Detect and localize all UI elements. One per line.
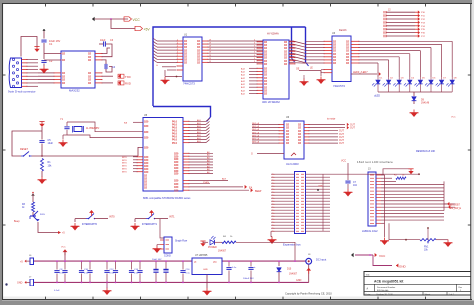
svg-text:74HC573: 74HC573: [333, 84, 345, 88]
label J5: [164, 240, 187, 258]
capacitor C12: [104, 260, 114, 283]
ground: [71, 219, 80, 231]
svg-text:SEG_A: SEG_A: [252, 128, 260, 131]
svg-text:October 26, 2010: October 26, 2010: [376, 293, 394, 296]
label U6: [286, 116, 299, 166]
wire: [381, 175, 455, 223]
svg-text:VO: VO: [213, 261, 217, 264]
capacitor C14: [129, 260, 139, 283]
mcu U5 STC89C52: [137, 117, 190, 192]
svg-text:1D0: 1D0: [144, 125, 149, 128]
connector J7 GND: [17, 276, 34, 285]
svg-text:10uF 16V: 10uF 16V: [152, 259, 162, 261]
svg-text:3: 3: [254, 43, 255, 45]
svg-text:LED0_/LED7: LED0_/LED7: [353, 71, 368, 74]
svg-text:INTERRUPT0: INTERRUPT0: [82, 223, 98, 226]
wire: [122, 157, 137, 174]
svg-text:SEG_A: SEG_A: [252, 122, 260, 125]
ground: [103, 282, 112, 295]
svg-text:1D: 1D: [88, 82, 91, 85]
ground: [59, 140, 68, 148]
connector J2 header: [384, 9, 426, 39]
ground: [268, 237, 277, 245]
wire jogs: [289, 41, 324, 63]
capacitor C2: [41, 49, 52, 66]
svg-text:VI: VI: [194, 261, 197, 264]
svg-text:HY-6264A: HY-6264A: [267, 32, 279, 36]
diode D9 1N4148: [412, 97, 430, 105]
wire: [38, 73, 54, 83]
label J1: [8, 90, 36, 94]
svg-text:INT0: INT0: [122, 166, 128, 168]
svg-text:1D0: 1D0: [144, 131, 149, 134]
svg-text:INT0: INT0: [122, 160, 128, 162]
svg-text:VCC: VCC: [341, 160, 346, 163]
svg-text:2: 2: [177, 43, 178, 45]
svg-text:OUT: OUT: [339, 131, 344, 133]
svg-text:1D: 1D: [346, 62, 349, 65]
svg-text:Px: Px: [272, 219, 274, 221]
wire: [189, 188, 262, 193]
svg-text:OUT: OUT: [350, 128, 355, 130]
switch RESET: [20, 148, 32, 157]
LED D12: [203, 236, 217, 249]
switch INT0: [75, 210, 115, 226]
svg-text:8051kit.ddb: 8051kit.ddb: [377, 289, 389, 292]
svg-text:1D0: 1D0: [144, 121, 149, 124]
svg-text:3: 3: [254, 52, 255, 54]
svg-text:1D: 1D: [264, 93, 267, 96]
wire: [189, 119, 210, 144]
svg-text:19: 19: [209, 43, 211, 45]
svg-text:U7 LM7805: U7 LM7805: [195, 254, 208, 257]
capacitor C16: [226, 260, 237, 283]
label J4: [283, 186, 323, 247]
svg-text:10uF: 10uF: [48, 142, 54, 145]
connector J1 DB9: [9, 58, 38, 88]
svg-text:2: 2: [177, 49, 178, 51]
svg-text:VCC: VCC: [133, 18, 141, 22]
power arrow: [408, 169, 420, 175]
label U1: [183, 34, 195, 86]
ground: [161, 77, 170, 85]
svg-text:OUT: OUT: [339, 137, 344, 139]
svg-text:32K x8 SRAM: 32K x8 SRAM: [262, 100, 280, 104]
ground: [300, 75, 309, 86]
svg-text:RESPACK-8 10K: RESPACK-8 10K: [416, 150, 435, 153]
wire: [63, 135, 67, 139]
ground: [380, 238, 389, 246]
wire: [160, 219, 164, 238]
svg-text:Px: Px: [272, 213, 274, 215]
svg-text:Px: Px: [272, 189, 274, 191]
svg-text:2: 2: [177, 61, 178, 63]
svg-text:100uF 16V: 100uF 16V: [243, 278, 254, 280]
connector J3 LCD: [368, 172, 381, 226]
label LCD section: [357, 160, 393, 164]
ground: [317, 77, 326, 85]
svg-text:BEEP: BEEP: [255, 190, 262, 193]
resistor R2: [394, 175, 406, 180]
svg-text:Da103: Da103: [339, 29, 347, 32]
svg-text:GND: GND: [399, 265, 407, 269]
wire: [306, 174, 331, 231]
svg-text:1D: 1D: [264, 63, 267, 66]
svg-text:19: 19: [209, 55, 211, 57]
svg-text:19: 19: [209, 46, 211, 48]
svg-text:CON3: CON3: [164, 255, 171, 258]
svg-text:1D0: 1D0: [174, 173, 179, 176]
svg-text:2: 2: [177, 46, 178, 48]
svg-text:Px: Px: [272, 198, 274, 200]
svg-text:GND: GND: [203, 269, 208, 271]
wire: [21, 37, 37, 57]
U3 74HC573: [324, 36, 360, 82]
svg-text:1D: 1D: [333, 62, 336, 65]
svg-text:INT1: INT1: [169, 215, 175, 219]
svg-text:74HC573: 74HC573: [183, 82, 195, 86]
power arrow VCC tap: [63, 249, 68, 262]
svg-text:INT0: INT0: [122, 172, 128, 174]
svg-text:1D: 1D: [62, 82, 65, 85]
op-amp U2 MAX232: [54, 51, 103, 88]
svg-text:PSEN: PSEN: [203, 182, 209, 184]
connector J4 expansion: [295, 172, 306, 234]
capacitor C13: [113, 260, 118, 283]
capacitor C10: [79, 260, 89, 283]
svg-text:3: 3: [254, 58, 255, 60]
svg-text:TXD: TXD: [125, 75, 131, 79]
svg-text:2: 2: [177, 40, 178, 42]
port RXD: [118, 81, 131, 86]
svg-text:INT0: INT0: [122, 157, 128, 159]
svg-text:POWER: POWER: [208, 247, 217, 249]
svg-text:OUT: OUT: [339, 134, 344, 136]
ground: [131, 219, 140, 231]
capacitor C9: [62, 260, 67, 283]
svg-text:1D: 1D: [62, 53, 65, 56]
wire LE label: [351, 71, 381, 76]
ground: [444, 240, 453, 248]
svg-text:1D: 1D: [88, 59, 91, 62]
capacitor C15: [137, 260, 142, 283]
svg-text:1D: 1D: [298, 142, 301, 145]
title block: [364, 272, 471, 296]
svg-text:ALE: ALE: [222, 178, 227, 181]
label: [327, 118, 336, 121]
label U3: [332, 29, 347, 88]
wire: [206, 275, 208, 289]
svg-text:Px: Px: [272, 222, 274, 224]
svg-text:19: 19: [209, 58, 211, 60]
wire: [443, 181, 445, 210]
svg-text:INT0: INT0: [122, 169, 128, 171]
label U2: [69, 89, 80, 93]
svg-text:VCC: VCC: [451, 117, 456, 119]
svg-text:9-pin D-sub connector: 9-pin D-sub connector: [8, 90, 36, 94]
svg-text:MAX232: MAX232: [69, 89, 80, 93]
svg-text:OUT: OUT: [339, 140, 344, 142]
resistor R4: [215, 236, 237, 244]
svg-text:3: 3: [254, 55, 255, 57]
capacitor C3: [99, 39, 114, 57]
svg-text:OUT: OUT: [339, 143, 344, 145]
ground: [410, 110, 419, 118]
svg-text:3: 3: [254, 46, 255, 48]
svg-text:OE: OE: [296, 69, 300, 71]
svg-text:1D: 1D: [197, 61, 200, 64]
svg-text:INT0: INT0: [109, 215, 115, 219]
switch INT1: [135, 210, 175, 226]
wire: [236, 242, 296, 262]
wire: [189, 185, 253, 190]
svg-text:Px: Px: [272, 231, 274, 233]
crystal Y1: [60, 118, 100, 133]
bus P0/data: [153, 27, 306, 122]
svg-text:2: 2: [177, 55, 178, 57]
regulator U7 7805: [192, 251, 227, 275]
label: [54, 247, 66, 293]
svg-text:INT0: INT0: [122, 163, 128, 165]
bus riser: [292, 27, 295, 62]
svg-text:Px: Px: [272, 174, 274, 176]
svg-text:19: 19: [209, 52, 211, 54]
svg-text:3: 3: [254, 49, 255, 51]
svg-text:Px: Px: [272, 183, 274, 185]
svg-text:3: 3: [254, 61, 255, 63]
power port GND: [373, 255, 407, 269]
wire: [208, 40, 263, 63]
svg-text:SEG_A: SEG_A: [252, 134, 260, 137]
ground: [40, 66, 49, 74]
wire: [271, 174, 295, 233]
svg-text:G: G: [251, 154, 253, 156]
wire: [251, 153, 296, 156]
svg-text:Px: Px: [272, 210, 274, 212]
svg-text:RV1: RV1: [424, 247, 429, 249]
capacitor C5: [39, 139, 53, 145]
capacitor CE2: [163, 260, 168, 283]
svg-text:LE: LE: [310, 68, 313, 70]
resistor R1: [41, 159, 53, 172]
capacitor C7: [341, 160, 358, 190]
wire: [296, 264, 311, 282]
svg-text:D10: D10: [287, 269, 292, 271]
svg-text:ULN 2003: ULN 2003: [286, 162, 299, 166]
svg-text:DC Input: DC Input: [316, 258, 327, 262]
svg-text:9015: 9015: [40, 214, 46, 216]
port TXD: [118, 74, 131, 79]
wire: [296, 68, 324, 77]
wire: [38, 222, 65, 235]
svg-text:Px: Px: [272, 192, 274, 194]
svg-text:8051 compatible STC89C52 RC/RD: 8051 compatible STC89C52 RC/RD series: [143, 197, 191, 200]
wire: [252, 122, 279, 144]
svg-text:Sheet: Sheet: [425, 293, 431, 296]
diode D10 1N4007: [277, 260, 298, 283]
wire: [374, 92, 452, 98]
svg-text:Px: Px: [272, 180, 274, 182]
svg-text:VCC: VCC: [61, 247, 66, 249]
power port VCC: [351, 253, 386, 258]
wire: [309, 123, 355, 145]
svg-text:1D: 1D: [286, 142, 289, 145]
svg-text:Px: Px: [272, 186, 274, 188]
capacitor C4: [102, 60, 116, 72]
wire: [44, 54, 61, 61]
ground: [38, 177, 47, 185]
svg-text:19: 19: [209, 40, 211, 42]
port LCD2: [448, 205, 462, 210]
svg-text:0.1uF: 0.1uF: [54, 290, 60, 292]
svg-text:1D: 1D: [144, 187, 147, 190]
svg-text:1D: 1D: [284, 63, 287, 66]
LEDs D1-D8: [372, 77, 457, 92]
svg-text:19: 19: [209, 61, 211, 63]
svg-text:RS_RW_E: RS_RW_E: [450, 208, 462, 210]
svg-text:1D0: 1D0: [144, 147, 149, 150]
svg-text:Px: Px: [272, 216, 274, 218]
svg-text:1N4007: 1N4007: [289, 274, 298, 276]
power port VCC top-left: [92, 17, 140, 22]
svg-text:Single Row: Single Row: [175, 240, 187, 243]
svg-text:Date:: Date:: [366, 293, 372, 296]
svg-text:SEG_A: SEG_A: [252, 141, 260, 144]
wire: [32, 147, 144, 157]
wire: [102, 75, 113, 77]
resistor R3: [22, 197, 35, 212]
wire: [271, 231, 272, 236]
ground: [203, 288, 212, 296]
svg-text:Px: Px: [272, 177, 274, 179]
svg-text:+5V: +5V: [144, 28, 151, 32]
wire: [189, 178, 228, 181]
wire: [385, 175, 421, 241]
svg-text:1D0: 1D0: [144, 171, 149, 174]
svg-text:GND: GND: [17, 282, 23, 285]
label RP1: [416, 117, 456, 153]
svg-text:RESET: RESET: [20, 148, 29, 151]
port LCD: [444, 202, 461, 207]
power port +5V top-left: [135, 26, 150, 31]
wire: [67, 122, 143, 138]
wire: [111, 19, 135, 29]
bus riser 2: [306, 27, 309, 66]
wire: [383, 169, 411, 175]
wire: [102, 82, 113, 84]
ground: [344, 189, 353, 197]
wire power rail bottom: [34, 281, 309, 283]
svg-text:SEG_A: SEG_A: [252, 125, 260, 128]
svg-text:GND: GND: [318, 186, 323, 188]
wire: [189, 151, 213, 174]
wire power rail top: [34, 260, 306, 262]
port BEEP: [31, 192, 35, 197]
connector J6 +5V: [20, 255, 34, 264]
svg-text:2: 2: [177, 58, 178, 60]
svg-text:1D0: 1D0: [174, 189, 179, 192]
connector J5: [160, 237, 172, 253]
svg-text:ACE mega8051 kit: ACE mega8051 kit: [374, 280, 404, 284]
svg-text:1N4007: 1N4007: [218, 251, 227, 253]
svg-text:Px: Px: [272, 204, 274, 206]
wire: [124, 121, 143, 124]
svg-text:Document Number: Document Number: [377, 286, 396, 289]
svg-text:Copyright by Pantin Renzhong C: Copyright by Pantin Renzhong CE, 2010: [285, 292, 332, 296]
svg-text:RXD: RXD: [125, 82, 131, 86]
wire: [330, 173, 419, 175]
wire: [41, 127, 43, 140]
capacitor C1: [41, 29, 60, 49]
wire: [12, 131, 42, 156]
svg-text:3: 3: [254, 40, 255, 42]
power arrow: [200, 241, 205, 247]
connector J8 DC input: [306, 254, 327, 264]
svg-text:LM016L 16x2: LM016L 16x2: [362, 229, 378, 233]
wire: [156, 65, 182, 77]
wire: [154, 39, 179, 63]
label U4: [262, 32, 280, 104]
label U5: [143, 114, 191, 200]
wire: [359, 41, 452, 77]
label J3: [362, 168, 378, 233]
memory U4 6264: [257, 40, 296, 99]
svg-text:uLED: uLED: [374, 95, 380, 98]
svg-text:2: 2: [177, 52, 178, 54]
capacitor C17: [243, 260, 256, 283]
svg-text:1D0: 1D0: [144, 137, 149, 140]
wire: [241, 67, 257, 95]
svg-text:1N4148: 1N4148: [421, 103, 430, 105]
transistor Q1: [14, 211, 46, 223]
svg-text:SEG_A: SEG_A: [252, 138, 260, 141]
svg-text:Px: Px: [272, 228, 274, 230]
svg-text:1D: 1D: [184, 61, 187, 64]
svg-text:GND: GND: [296, 279, 302, 282]
ground: [153, 245, 162, 254]
wire: [41, 171, 43, 177]
power arrow VCC reset: [39, 122, 44, 128]
svg-text:1D: 1D: [62, 59, 65, 62]
U1 74HC573: [177, 37, 209, 81]
svg-text:OUT: OUT: [350, 125, 355, 127]
svg-text:19: 19: [209, 49, 211, 51]
svg-text:Rev: Rev: [459, 287, 463, 289]
svg-text:10uF: 10uF: [100, 39, 106, 42]
capacitor C16: [180, 260, 190, 283]
svg-text:Px: Px: [272, 195, 274, 197]
svg-text:16x2 text LCD interface: 16x2 text LCD interface: [357, 160, 393, 164]
label copyright: [285, 292, 332, 296]
capacitor C6: [64, 122, 69, 135]
potentiometer RV1: [420, 227, 436, 251]
svg-text:G: G: [156, 65, 158, 67]
power arrow: [34, 44, 39, 52]
svg-text:DB0_/DB7: DB0_/DB7: [449, 205, 461, 207]
capacitor C11: [87, 260, 92, 283]
wire: [436, 239, 448, 241]
svg-text:to motor: to motor: [327, 118, 336, 121]
svg-text:Px: Px: [272, 207, 274, 209]
wire: [189, 182, 210, 184]
svg-text:INTERRUPT1: INTERRUPT1: [142, 223, 158, 226]
svg-text:Px: Px: [272, 201, 274, 203]
svg-text:P0.0: P0.0: [172, 142, 178, 145]
label: [5, 283, 7, 285]
driver U6 ULN2003: [279, 121, 310, 159]
svg-text:Expansion bus: Expansion bus: [283, 243, 301, 247]
svg-text:11.0592MHz: 11.0592MHz: [86, 127, 100, 130]
